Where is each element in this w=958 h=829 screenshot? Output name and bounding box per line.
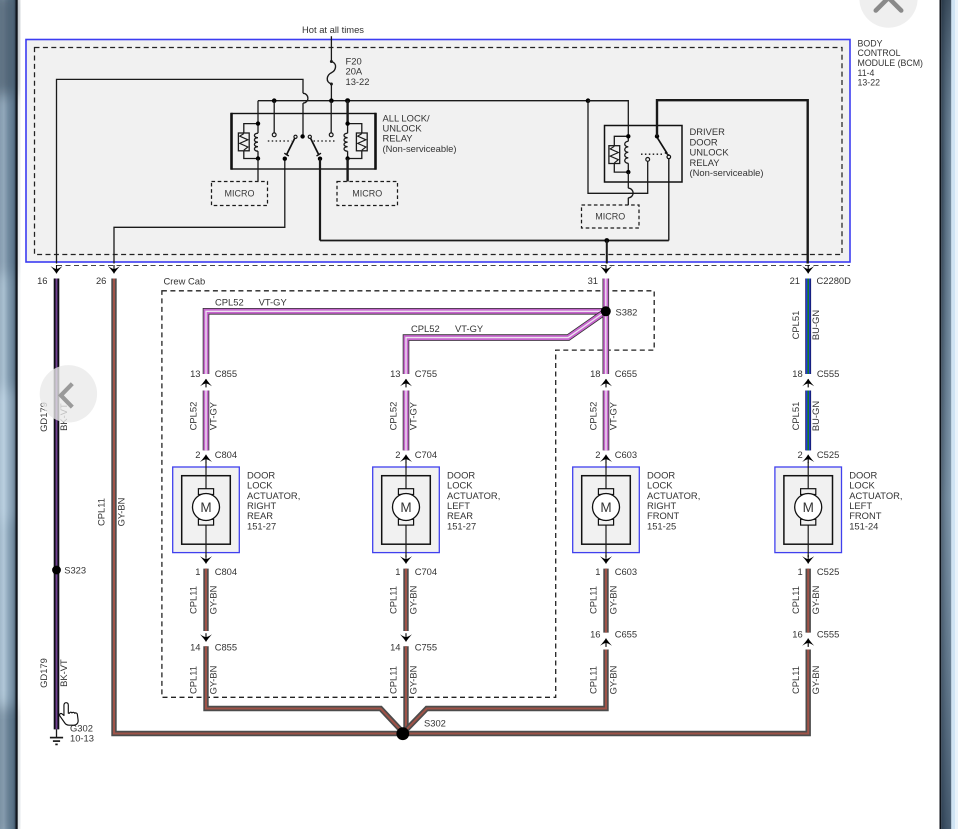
- svg-text:VT-GY: VT-GY: [608, 401, 619, 430]
- connector arrow C804 pin 2: [200, 455, 212, 464]
- wire CPL11 GY-BN C555 to S302: [403, 650, 808, 734]
- harness boundary dashed line: [57, 265, 850, 267]
- svg-text:C525: C525: [817, 449, 839, 460]
- svg-text:151-27: 151-27: [447, 520, 476, 531]
- svg-text:C704: C704: [415, 449, 437, 460]
- wire K1 coil2 resistor branch bottom: [348, 151, 362, 159]
- svg-text:S323: S323: [64, 564, 86, 575]
- svg-text:BU-GN: BU-GN: [810, 310, 821, 340]
- junction node to pin 31: [604, 238, 609, 243]
- wire BCM pin 16 to relay switch feed: [57, 79, 304, 263]
- wire CPL11 GY-BN C804 to C855: [203, 569, 208, 631]
- wire K2 coil resistor branch bottom: [614, 164, 628, 173]
- svg-text:CPL11: CPL11: [188, 586, 199, 614]
- wire GD179 BK-VT ground wire: [54, 279, 60, 730]
- door lock actuator M2: [373, 462, 440, 557]
- wire K1 coil1 lower: [257, 151, 259, 158]
- wire hop to switch pivot: [302, 103, 304, 134]
- svg-text:11-4: 11-4: [858, 68, 875, 78]
- junction bus / K2 branch: [586, 98, 591, 103]
- wire junction to BCM pin 31: [606, 241, 608, 264]
- svg-text:C804: C804: [215, 449, 237, 460]
- terminal circle K1 b: [329, 133, 333, 137]
- connector arrow C603 pin 2: [600, 455, 612, 464]
- svg-text:1: 1: [797, 566, 802, 577]
- svg-text:CPL52: CPL52: [215, 297, 244, 308]
- relay K1 ALL LOCK/UNLOCK RELAY box: [232, 113, 376, 170]
- svg-text:CPL11: CPL11: [388, 586, 399, 614]
- connector arrow BCM pin 16: [51, 265, 63, 274]
- thick wire bus to K1 coil 2: [346, 101, 348, 124]
- inductor coil K2: [625, 141, 629, 163]
- ground G302 symbol: [50, 738, 63, 745]
- svg-text:C755: C755: [415, 642, 437, 653]
- svg-text:MICRO: MICRO: [595, 212, 625, 222]
- junction K1 coil2 bottom node: [345, 156, 349, 160]
- wire CPL52 VT-GY pin 31 to C655: [602, 279, 609, 375]
- relay K2 DRIVER DOOR UNLOCK RELAY box: [605, 126, 683, 183]
- svg-text:C655: C655: [615, 368, 637, 379]
- svg-text:MODULE (BCM): MODULE (BCM): [858, 58, 924, 68]
- connector arrow C804 pin 1: [200, 555, 212, 564]
- connector arrow C525 pin 1: [802, 555, 814, 564]
- svg-text:CPL11: CPL11: [96, 498, 107, 526]
- inductor coil K1 coil 1: [254, 133, 258, 151]
- svg-text:M: M: [200, 500, 211, 515]
- svg-text:GY-BN: GY-BN: [408, 666, 419, 695]
- svg-text:16: 16: [792, 629, 802, 640]
- svg-text:18: 18: [792, 368, 802, 379]
- thick wire K1 unlock contact down: [319, 159, 321, 241]
- svg-text:(Non-serviceable): (Non-serviceable): [690, 167, 764, 178]
- svg-text:Crew Cab: Crew Cab: [164, 276, 206, 287]
- svg-text:M: M: [400, 500, 411, 515]
- wire bus to K1 coil 1: [257, 101, 259, 124]
- wire CPL11 GY-BN C704 to C755: [403, 569, 408, 631]
- svg-text:GY-BN: GY-BN: [208, 586, 219, 615]
- wire bus to K1 terminal b: [330, 101, 332, 133]
- svg-text:26: 26: [96, 275, 106, 286]
- svg-text:S382: S382: [616, 306, 638, 317]
- svg-text:GY-BN: GY-BN: [408, 586, 419, 615]
- wire CPL52 VT-GY run to C855: [206, 311, 606, 374]
- svg-text:MICRO: MICRO: [225, 189, 255, 199]
- svg-text:M: M: [803, 500, 814, 515]
- connector arrow C655 pin 16: [600, 638, 612, 647]
- MICRO driver box 3: [582, 205, 640, 228]
- svg-text:C855: C855: [215, 642, 237, 653]
- svg-text:VT-GY: VT-GY: [408, 401, 419, 430]
- svg-text:VT-GY: VT-GY: [259, 297, 288, 308]
- terminal circle K2 a: [646, 158, 650, 162]
- wire CPL52 VT-GY C755 to C704: [403, 391, 410, 451]
- terminal circle K1 a: [272, 133, 276, 137]
- svg-text:151-25: 151-25: [647, 520, 676, 531]
- K1 switch pivot and contacts: [283, 134, 323, 161]
- svg-text:GY-BN: GY-BN: [116, 498, 127, 527]
- wire CPL11 GY-BN from BCM pin 26 to S302: [114, 279, 403, 734]
- wire CPL11 GY-BN C525 to C555: [806, 569, 811, 633]
- connector arrow C655 pin 18: [600, 379, 612, 388]
- svg-text:CPL11: CPL11: [790, 666, 801, 694]
- svg-text:13-22: 13-22: [858, 78, 881, 88]
- wire from hot feed to fuse F20: [330, 36, 332, 61]
- wire BCM pin 26 to relay contact: [114, 161, 285, 264]
- svg-text:M: M: [600, 500, 611, 515]
- svg-text:S302: S302: [424, 718, 446, 729]
- svg-text:13: 13: [190, 368, 200, 379]
- bus wire hot feed inside BCM: [258, 100, 628, 102]
- svg-text:16: 16: [590, 629, 600, 640]
- svg-text:CPL11: CPL11: [588, 666, 599, 694]
- svg-text:CPL11: CPL11: [588, 586, 599, 614]
- wire fuse to bus: [330, 84, 332, 101]
- splice S382: [601, 306, 611, 316]
- junction K2 coil bottom node: [626, 170, 630, 174]
- wire K1 coil2 resistor branch top: [348, 124, 362, 133]
- svg-text:VT-GY: VT-GY: [455, 323, 484, 334]
- connector arrow C855 pin 13: [200, 379, 212, 388]
- inductor coil K1 coil 2: [344, 133, 348, 151]
- junction bus / coil1 control terminal: [272, 98, 277, 103]
- wire CPL11 GY-BN C755 to S302: [403, 646, 408, 733]
- svg-text:CPL51: CPL51: [790, 402, 801, 431]
- resistor in K2 coil: [609, 146, 620, 164]
- svg-text:C755: C755: [415, 368, 437, 379]
- wire CPL52 VT-GY run to C755: [406, 311, 606, 374]
- svg-text:21: 21: [790, 275, 800, 286]
- Crew Cab boundary dashed box: [162, 291, 654, 698]
- wire K2 coil to hop: [627, 172, 629, 188]
- svg-text:C603: C603: [615, 449, 637, 460]
- svg-text:CPL11: CPL11: [388, 666, 399, 694]
- svg-text:C555: C555: [817, 368, 839, 379]
- window frame right strip: [940, 0, 958, 829]
- svg-text:(Non-serviceable): (Non-serviceable): [383, 143, 457, 154]
- window frame left strip: [0, 0, 18, 829]
- junction bus / fuse feed: [329, 98, 334, 103]
- svg-text:2: 2: [395, 449, 400, 460]
- svg-text:31: 31: [588, 275, 598, 286]
- svg-text:VT-GY: VT-GY: [208, 401, 219, 430]
- wire bus to K1 terminal a: [273, 101, 275, 133]
- connector arrow C555 pin 16: [802, 638, 814, 647]
- svg-text:BODY: BODY: [858, 38, 883, 48]
- svg-text:C603: C603: [615, 566, 637, 577]
- junction K1 coil1 top node: [256, 121, 260, 125]
- junction K1 coil1 bottom node: [256, 156, 260, 160]
- svg-text:16: 16: [37, 275, 47, 286]
- connector arrow C755 pin 14: [400, 633, 412, 642]
- svg-text:CPL52: CPL52: [588, 402, 599, 431]
- wire CPL52 VT-GY C655 to C603: [603, 391, 610, 451]
- svg-text:BU-GN: BU-GN: [810, 401, 821, 431]
- svg-text:2: 2: [797, 449, 802, 460]
- connector arrow C855 pin 14: [200, 633, 212, 642]
- svg-text:BK-VT: BK-VT: [58, 659, 69, 687]
- svg-text:GY-BN: GY-BN: [208, 666, 219, 695]
- wire K1 coil1 resistor branch bottom: [244, 151, 258, 159]
- svg-text:GY-BN: GY-BN: [608, 586, 619, 615]
- svg-text:CPL52: CPL52: [188, 402, 199, 431]
- connector arrow BCM pin 31: [600, 265, 612, 274]
- wire CPL51 BU-GN C555 to C525: [805, 391, 811, 451]
- svg-text:C655: C655: [615, 629, 637, 640]
- connector arrow BCM pin 26: [108, 265, 120, 274]
- wire CPL52 VT-GY C855 to C804: [203, 391, 210, 451]
- svg-text:14: 14: [390, 642, 400, 653]
- connector arrow C755 pin 13: [400, 379, 412, 388]
- wire K2 coil resistor branch top: [614, 136, 628, 145]
- wire K1 coil1 to MICRO driver 1: [257, 159, 259, 182]
- BCM module box: [26, 40, 850, 263]
- svg-text:CPL11: CPL11: [188, 666, 199, 694]
- wire to ground G302: [56, 729, 58, 737]
- svg-text:20A: 20A: [346, 66, 363, 77]
- svg-text:C855: C855: [215, 368, 237, 379]
- junction bus / coil2 feed: [345, 98, 350, 103]
- wire hop to MICRO 3: [627, 198, 629, 205]
- wire CPL11 GY-BN C655 to S302: [404, 650, 606, 733]
- splice S323: [52, 566, 61, 575]
- svg-text:C555: C555: [817, 629, 839, 640]
- wire CPL51 BU-GN pin 21 to C555: [805, 279, 811, 375]
- resistor in K1 coil 1: [238, 133, 249, 151]
- wire K2 coil upper: [627, 136, 629, 141]
- svg-text:F20: F20: [346, 55, 362, 66]
- door lock actuator M3: [573, 462, 640, 557]
- junction K2 coil top node: [626, 134, 630, 138]
- door lock actuator M1: [173, 462, 240, 557]
- thick wire K1 coil2 to MICRO driver 2: [346, 159, 348, 182]
- connector arrow BCM pin 21: [802, 265, 814, 274]
- svg-text:CPL52: CPL52: [388, 402, 399, 431]
- wire hop over bus: [303, 93, 308, 103]
- svg-text:GY-BN: GY-BN: [608, 666, 619, 695]
- svg-text:Hot at all times: Hot at all times: [302, 24, 364, 35]
- svg-text:2: 2: [195, 449, 200, 460]
- K2 switch arm and contacts: [655, 134, 671, 159]
- connector arrow C704 pin 2: [400, 455, 412, 464]
- thick wire K2 common to BCM pin 21: [657, 100, 808, 263]
- svg-text:13-22: 13-22: [346, 76, 370, 87]
- MICRO driver box 2: [337, 182, 398, 206]
- resistor in K1 coil 2: [356, 133, 367, 151]
- svg-text:GD179: GD179: [38, 658, 49, 688]
- wire bus branch to K2 fixed contact 2: [588, 101, 648, 194]
- svg-text:C525: C525: [817, 566, 839, 577]
- door lock actuator M4: [775, 462, 842, 557]
- svg-text:151-24: 151-24: [849, 520, 878, 531]
- wire CPL11 GY-BN C855 to S302: [206, 646, 403, 733]
- svg-text:18: 18: [590, 368, 600, 379]
- svg-text:2: 2: [595, 449, 600, 460]
- wire K1 coil2 upper: [347, 124, 349, 134]
- wire K1 coil1 upper: [257, 124, 259, 134]
- K2 mechanical link dotted line: [641, 153, 663, 155]
- svg-text:MICRO: MICRO: [352, 189, 382, 199]
- previous page button with chevron: [40, 365, 97, 422]
- svg-text:C704: C704: [415, 566, 437, 577]
- connector arrow C525 pin 2: [802, 455, 814, 464]
- svg-text:1: 1: [595, 566, 600, 577]
- svg-text:1: 1: [195, 566, 200, 577]
- wire K1 coil1 resistor branch top: [244, 124, 258, 133]
- MICRO driver box 1: [212, 182, 268, 206]
- connector arrow C603 pin 1: [600, 555, 612, 564]
- mouse hand cursor: [60, 703, 79, 725]
- connector arrow C704 pin 1: [400, 555, 412, 564]
- svg-text:C2280D: C2280D: [817, 275, 852, 286]
- connector arrow C555 pin 18: [802, 379, 814, 388]
- svg-text:C804: C804: [215, 566, 237, 577]
- svg-text:GY-BN: GY-BN: [810, 586, 821, 615]
- svg-text:1: 1: [395, 566, 400, 577]
- svg-text:GY-BN: GY-BN: [810, 666, 821, 695]
- splice S302: [396, 727, 409, 740]
- svg-text:CPL51: CPL51: [790, 311, 801, 340]
- junction K1 coil2 top node: [345, 121, 349, 125]
- svg-text:CONTROL: CONTROL: [858, 48, 901, 58]
- K1 mechanical link dotted lines: [268, 140, 337, 142]
- svg-text:14: 14: [190, 642, 200, 653]
- wire K2 coil lower: [627, 163, 629, 172]
- svg-text:CPL52: CPL52: [411, 323, 440, 334]
- svg-text:13: 13: [390, 368, 400, 379]
- svg-text:151-27: 151-27: [247, 520, 276, 531]
- wire hop over branch: [628, 188, 633, 198]
- wire up to K2 fixed contact: [668, 159, 670, 241]
- wire bus to K2 coil: [588, 101, 628, 137]
- scroll up button with chevron: [859, 0, 917, 28]
- fuse F20: [327, 60, 335, 86]
- svg-text:CPL11: CPL11: [790, 586, 801, 614]
- wire K1 contact to K2 contact: [320, 240, 669, 242]
- svg-text:10-13: 10-13: [70, 733, 94, 744]
- wire K1 coil2 lower: [347, 151, 349, 158]
- wire CPL11 GY-BN C603 to C655: [603, 569, 608, 633]
